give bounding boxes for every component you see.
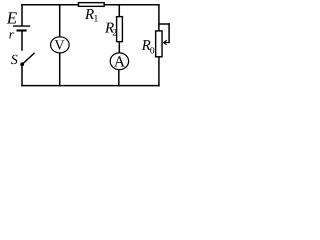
wire R0 bottom lead	[158, 57, 160, 86]
svg-text:V: V	[54, 37, 65, 53]
ammeter U-A circle	[110, 53, 128, 70]
svg-text:0: 0	[150, 47, 155, 57]
wire R2 to ammeter	[118, 42, 120, 53]
battery E short plate	[17, 29, 27, 31]
svg-text:E: E	[6, 9, 18, 28]
wire battery to switch	[21, 31, 23, 50]
wire far-right vertical	[168, 24, 170, 43]
wire bottom	[22, 85, 159, 87]
resistor R1 box	[78, 3, 104, 7]
battery E long plate	[13, 25, 30, 27]
switch S pivot dot	[20, 62, 24, 66]
wire ammeter to bottom	[118, 70, 120, 86]
wire right vertical (corner to R0 top)	[158, 5, 160, 31]
wire left vertical (corner to battery)	[21, 5, 23, 26]
svg-text:2: 2	[112, 29, 117, 39]
wire top-right segment	[105, 4, 159, 6]
svg-text:A: A	[114, 54, 126, 71]
rheostat R0 wiper arrow	[164, 40, 170, 45]
wire switch to bottom	[21, 65, 23, 86]
svg-text:S: S	[11, 53, 18, 68]
switch S blade	[22, 53, 35, 65]
wire R2 branch top	[118, 5, 120, 16]
svg-text:1: 1	[93, 14, 98, 25]
wire jog to far right	[159, 23, 169, 25]
voltmeter U-V circle	[51, 37, 70, 53]
wire top-left segment	[22, 4, 78, 6]
wire voltmeter branch top	[59, 5, 61, 37]
wire voltmeter branch bottom	[59, 53, 61, 86]
resistor R0 box	[156, 31, 162, 57]
resistor R2 box	[117, 17, 123, 42]
